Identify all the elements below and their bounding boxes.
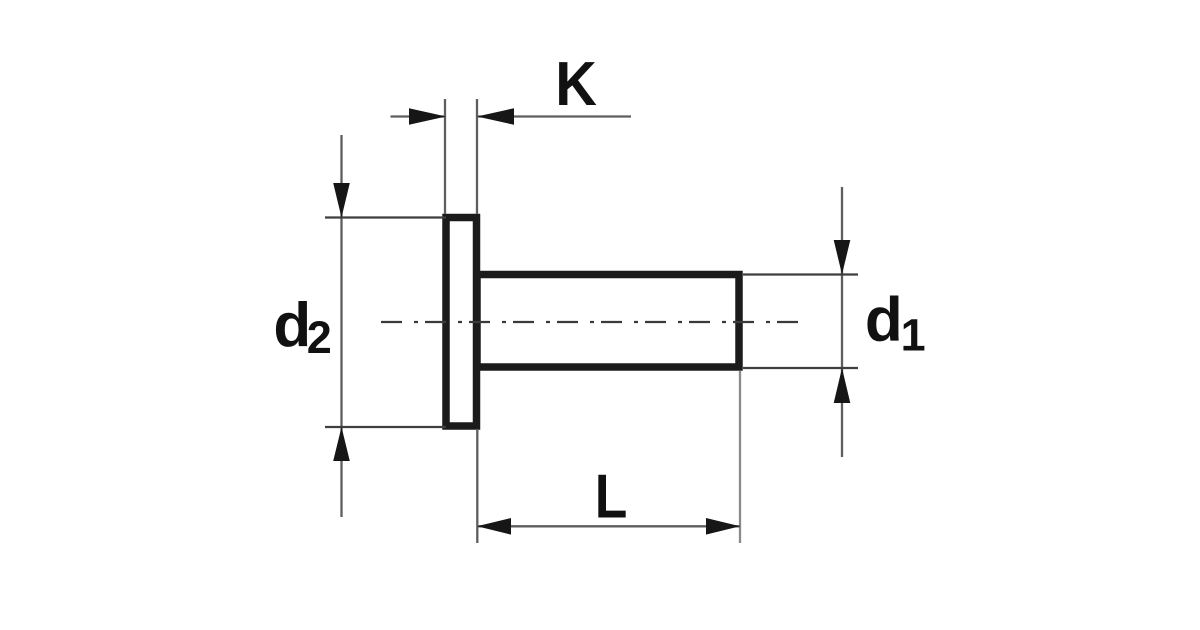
svg-text:K: K bbox=[555, 49, 597, 118]
svg-text:1: 1 bbox=[901, 310, 926, 361]
svg-text:d: d bbox=[865, 286, 903, 355]
svg-text:2: 2 bbox=[307, 312, 332, 363]
svg-text:d: d bbox=[273, 291, 311, 360]
svg-text:L: L bbox=[595, 463, 628, 532]
